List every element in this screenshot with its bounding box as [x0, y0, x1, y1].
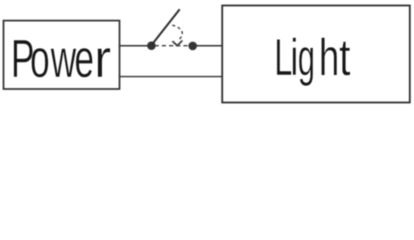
svg-text:w: w	[50, 29, 76, 89]
svg-text:i: i	[290, 28, 298, 87]
switch S1: left contact node	[147, 41, 156, 50]
switch S1: closing-motion dashed arc	[172, 25, 182, 40]
power label	[11, 29, 111, 90]
switch S1: motion arrowhead	[172, 41, 182, 46]
svg-text:t: t	[339, 27, 351, 86]
wire: top left segment (power to switch)	[120, 45, 149, 47]
power box	[4, 21, 120, 89]
svg-text:e: e	[74, 29, 94, 89]
light box	[222, 6, 410, 103]
wire: bottom return segment (light to power)	[120, 76, 223, 78]
light label	[274, 27, 350, 87]
svg-text:o: o	[30, 29, 50, 89]
switch S1: closed-position dashed line	[151, 45, 192, 47]
wire: top right segment (switch to light)	[196, 45, 223, 47]
svg-text:r: r	[94, 30, 111, 89]
svg-text:g: g	[298, 29, 315, 87]
switch S1: open lever arm	[151, 9, 180, 45]
svg-text:h: h	[319, 28, 339, 87]
switch S1: right contact node	[188, 42, 197, 51]
